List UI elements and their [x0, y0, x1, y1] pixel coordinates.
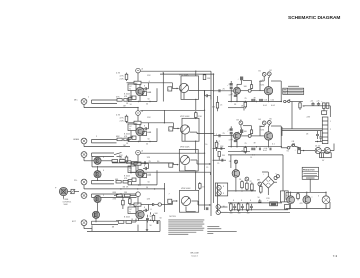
svg-text:71: 71: [129, 129, 131, 131]
node rail188 c: [154, 188, 155, 189]
wire: ch3 supply rail: [140, 152, 204, 154]
wire: rail y172 right end: [210, 172, 212, 175]
transistor TR10: [264, 87, 272, 95]
bus wire 2: [210, 71, 212, 216]
resistor R18b box: [143, 174, 147, 178]
resistor R35: [237, 202, 240, 212]
capacitor C14: [219, 133, 226, 137]
capacitor C23a electrolytic: [230, 128, 233, 131]
resistor R5b box: [143, 92, 147, 96]
resistor R42: [218, 152, 226, 157]
svg-text:50: 50: [160, 218, 162, 220]
svg-text:8: 8: [144, 126, 145, 128]
node ch1 feed: [163, 72, 164, 73]
svg-text:4.7K: 4.7K: [116, 73, 121, 75]
wire: C5 bypass riser: [156, 128, 158, 141]
svg-text:50: 50: [148, 99, 150, 101]
svg-text:C33: C33: [266, 198, 269, 200]
node p4: [242, 209, 243, 210]
wire: psu rail lower: [303, 106, 331, 117]
node b4: [268, 146, 269, 147]
wire: VR4 bottom: [186, 206, 196, 211]
resistor R30: [241, 180, 244, 189]
svg-text:8: 8: [241, 200, 242, 202]
resistor R22: [122, 199, 125, 207]
wire: switch feed: [281, 147, 287, 149]
wire: TR6 emitter: [96, 203, 98, 223]
tone pot VR5: [59, 187, 67, 195]
svg-text:0.04: 0.04: [264, 100, 268, 102]
node c26: [317, 141, 318, 142]
node p5: [251, 209, 252, 210]
transistor TR7: [136, 169, 144, 177]
resistor R27: [126, 221, 132, 224]
wire: diode links: [321, 144, 334, 151]
wire: jack3 shield drop: [92, 156, 131, 167]
wire: bridge leads: [262, 172, 277, 195]
svg-text:7-3: 7-3: [333, 254, 338, 258]
svg-text:Issue 4: Issue 4: [191, 255, 197, 257]
terminal strip box: [285, 205, 290, 210]
capacitor C25c: [259, 148, 260, 151]
terminal circle mid: [158, 203, 161, 206]
wire: ladder line 2: [213, 157, 226, 161]
wire: TR11 to TR12: [240, 135, 265, 137]
amp B rail: [228, 146, 282, 148]
node: VR2 foot: [195, 141, 196, 142]
loudspeaker LS1: [322, 196, 330, 204]
wire: ch4 in link: [132, 219, 136, 223]
svg-text:47K: 47K: [113, 199, 117, 201]
svg-text:5K: 5K: [303, 106, 306, 108]
node ch1 gnd: [137, 107, 138, 108]
svg-text:VR2 500K: VR2 500K: [180, 116, 190, 118]
transformer TF1: [280, 191, 288, 202]
svg-text:24: 24: [229, 161, 231, 163]
svg-text:B2: B2: [270, 70, 272, 72]
wire: T2 drop to TR10: [268, 76, 271, 88]
svg-text:1K: 1K: [239, 179, 242, 181]
resistor R5 box: [128, 96, 136, 100]
svg-text:470: 470: [259, 126, 262, 128]
transistor TR2: [136, 127, 144, 135]
jack5 switch contact: [114, 193, 122, 195]
wire: screened cable pair: [92, 153, 115, 156]
resistor R15: [132, 162, 138, 165]
svg-text:71: 71: [129, 212, 131, 214]
wire: trio links: [291, 192, 326, 196]
svg-text:47K: 47K: [116, 96, 120, 98]
wire: ch1 collector feed: [137, 73, 139, 81]
output socket box: [215, 183, 227, 196]
svg-text:B4: B4: [259, 119, 261, 121]
wire: R17 to TR7: [137, 165, 139, 169]
lamp LP3: [248, 134, 251, 137]
wire: R24 to TR8: [137, 206, 139, 210]
svg-text:50: 50: [150, 225, 152, 227]
svg-text:47K: 47K: [124, 136, 128, 138]
transistor TR9: [234, 87, 241, 94]
svg-text:1: 1: [88, 97, 89, 99]
svg-text:500K: 500K: [64, 204, 69, 206]
svg-text:OC81: OC81: [260, 85, 265, 87]
node: VR1 foot: [195, 99, 196, 100]
resistor R25: [152, 214, 155, 222]
svg-text:1K: 1K: [126, 187, 129, 189]
node c28: [303, 150, 304, 151]
svg-text:1M: 1M: [123, 105, 126, 107]
potentiometer VR4: [181, 196, 190, 205]
node bus1 ch3rail: [204, 153, 205, 154]
transistor TR12: [264, 132, 272, 140]
wire: ch2 riser x164: [163, 110, 165, 123]
node b1: [231, 146, 232, 147]
wire: VR2 wiper out: [190, 132, 214, 134]
wire: ch1 emitter rail: [128, 98, 157, 102]
svg-text:39: 39: [254, 98, 256, 100]
wire: R2 to TR1 base: [126, 99, 131, 101]
node a1: [231, 101, 232, 102]
capacitor C19: [316, 101, 320, 106]
wire: supply rail ch2: [140, 109, 204, 111]
type box TR8: [128, 207, 136, 214]
svg-text:OC81: OC81: [260, 130, 265, 132]
wire: T5 drop to TR12: [268, 124, 271, 132]
capacitor C25b: [254, 148, 255, 151]
svg-text:8: 8: [233, 200, 234, 202]
capacitor C23b electrolytic: [227, 130, 232, 134]
resistor R2: [123, 99, 129, 108]
type box TR2: [128, 124, 136, 131]
wire: VR2 bottom drop: [184, 134, 186, 141]
node b3: [256, 146, 257, 147]
svg-text:25: 25: [217, 144, 219, 146]
svg-text:12K: 12K: [147, 117, 151, 119]
wire: J3 to TR3: [84, 157, 94, 160]
wire: psu rail right: [290, 101, 303, 103]
output line lower: [286, 204, 330, 209]
svg-text:220: 220: [229, 84, 232, 86]
terminal P1: [245, 177, 249, 181]
resistor R31: [246, 182, 249, 191]
svg-text:25: 25: [223, 133, 226, 135]
svg-text:4.7K: 4.7K: [120, 159, 125, 161]
lamp LP2: [248, 89, 251, 92]
svg-text:8: 8: [223, 186, 225, 188]
svg-text:15: 15: [250, 157, 252, 159]
svg-text:P: P: [55, 188, 57, 190]
link block: [206, 207, 209, 210]
transistor TR3: [94, 157, 101, 164]
svg-text:S1: S1: [287, 151, 289, 153]
battery feed terminal A4: [136, 192, 141, 197]
node o2: [306, 192, 307, 193]
svg-text:4.7K: 4.7K: [120, 118, 125, 120]
wire: ch4 emitter rail: [116, 219, 160, 232]
svg-text:47K: 47K: [124, 96, 128, 98]
wire: VR4 wiper out: [191, 201, 211, 205]
svg-text:8: 8: [144, 207, 145, 209]
transistor TR14: [287, 196, 295, 204]
svg-text:4.7: 4.7: [217, 141, 220, 143]
resistor R38: [215, 141, 224, 149]
svg-text:8: 8: [144, 86, 145, 88]
jack3 switch contact: [114, 152, 122, 156]
wire: ch3 base link: [125, 161, 131, 174]
svg-text:9: 9: [223, 193, 225, 195]
wire: ch1 emitter: [139, 96, 141, 102]
wire: jack2 ground return: [84, 144, 130, 147]
wire: VR1 top to rail: [195, 71, 197, 76]
attenuator box ch2: [169, 127, 173, 131]
notes text block right: [207, 227, 236, 234]
switch S1: [286, 144, 295, 153]
svg-text:OC: OC: [129, 86, 132, 88]
node VR1 out bus: [204, 90, 205, 91]
svg-text:2: 2: [330, 129, 331, 131]
svg-text:1K: 1K: [202, 186, 205, 188]
capacitor C34: [221, 147, 222, 150]
terminal T5: [267, 118, 271, 124]
capacitor C10: [146, 215, 149, 223]
svg-text:+: +: [267, 200, 269, 202]
wire: rail y172: [130, 171, 211, 173]
wire: rail y188 ch3: [116, 188, 164, 190]
svg-text:+: +: [238, 78, 240, 80]
capacitor C19d: [261, 99, 262, 102]
wire: bias vertical B: [243, 126, 260, 136]
resistor R45: [115, 179, 121, 183]
wire: TR11 emitter: [236, 139, 238, 147]
capacitor C16 electrolytic: [230, 83, 233, 86]
resistor R17 boxed: [134, 162, 141, 166]
terminal T1: [259, 71, 267, 77]
svg-text:24V: 24V: [307, 117, 311, 119]
svg-text:+: +: [263, 174, 265, 176]
amp A rail: [228, 101, 282, 103]
resistor R40: [250, 130, 252, 135]
svg-text:50: 50: [146, 144, 148, 146]
wire: C16 leads: [230, 81, 232, 102]
node ch2 feed: [164, 122, 165, 123]
terminal P0: [234, 160, 237, 163]
wire: ch4 bias line: [130, 204, 147, 206]
wire: C15 lead: [237, 80, 242, 87]
svg-text:6: 6: [149, 81, 150, 83]
svg-text:47: 47: [245, 180, 247, 182]
node rail y172: [195, 172, 196, 173]
resistor R34: [230, 202, 233, 212]
trimmer RV1: [70, 189, 75, 193]
transistor TR4: [94, 171, 101, 178]
diode D2: [324, 148, 330, 154]
resistor R21: [124, 192, 130, 197]
svg-text:39: 39: [254, 143, 256, 145]
wire: ch4 collector feed: [137, 197, 139, 205]
capacitor C32: [258, 199, 261, 203]
battery feed terminal A1: [136, 68, 141, 73]
screen box VR1: [181, 76, 199, 100]
output socket SK4: [216, 210, 220, 214]
switch S2 in rail: [284, 99, 291, 103]
svg-text:0.1: 0.1: [272, 144, 275, 146]
wire: ch4 out riser: [150, 212, 152, 221]
wire: ch1 out drop: [172, 83, 178, 89]
wire: TR9 emitter: [236, 94, 238, 102]
attenuator box ch1: [168, 87, 172, 91]
capacitor C19a: [252, 99, 253, 102]
svg-text:+: +: [327, 110, 329, 112]
wire: down arrow: [146, 216, 152, 232]
capacitor C27: [319, 131, 322, 142]
wire: ch4 base link: [130, 195, 136, 197]
svg-text:0.01: 0.01: [148, 132, 152, 134]
resistor R43: [299, 102, 306, 111]
resistor R12: [195, 111, 203, 119]
svg-text:2.2K: 2.2K: [120, 120, 125, 122]
svg-text:7: 7: [169, 194, 170, 196]
wire: jack1 ground return: [84, 105, 138, 108]
wire: psu mid rail: [228, 190, 256, 192]
wire: ladder line 1: [213, 148, 225, 150]
svg-text:+25: +25: [316, 101, 319, 103]
resistor R19: [199, 182, 206, 190]
amp B lower rail: [228, 150, 250, 152]
wire: T3 drop: [240, 125, 243, 130]
wire: C22 lead: [237, 133, 242, 135]
svg-text:47K: 47K: [119, 155, 123, 157]
svg-text:3: 3: [318, 196, 319, 198]
wire: screened cable pair: [92, 140, 117, 143]
resistor R44: [212, 96, 223, 111]
wire: sockets link: [220, 207, 227, 212]
wire: VR2 top connect: [195, 117, 197, 120]
wire: R38 stubs: [216, 140, 218, 151]
capacitor C28 electrolytic: [295, 148, 301, 154]
relay box: [322, 108, 327, 114]
capacitor C22 electrolytic: [238, 129, 244, 133]
potentiometer VR3: [180, 155, 189, 164]
node o3: [325, 192, 326, 193]
svg-text:MIC: MIC: [74, 99, 78, 101]
svg-text:B5: B5: [270, 118, 272, 120]
wire: jack4 ground return: [84, 185, 116, 189]
wire: note box drop: [309, 179, 311, 192]
capacitor C25a: [252, 148, 253, 151]
node ch3 pot in: [177, 164, 178, 165]
node: VR2 out bus: [213, 133, 214, 134]
node ch3 rail a: [139, 184, 140, 185]
wire: ch3 out drop: [173, 163, 178, 165]
resistor R6: [203, 75, 211, 80]
wire: bus to amp A: [214, 90, 234, 92]
wire: ch3 rail: [112, 162, 172, 164]
svg-text:50: 50: [258, 197, 260, 199]
terminal P2: [258, 182, 262, 186]
resistor R3: [120, 73, 128, 81]
ground rail bottom: [87, 225, 160, 232]
wire: bus2 to VR3 link node: [209, 163, 210, 164]
svg-text:25: 25: [223, 88, 226, 90]
wire: rail y74 to bus: [160, 73, 214, 75]
resistor R20: [117, 194, 123, 197]
svg-text:100: 100: [238, 212, 241, 214]
svg-text:VR4 500K: VR4 500K: [181, 188, 191, 190]
svg-text:GRAM: GRAM: [73, 138, 79, 141]
wire: R4 to TR1: [139, 84, 141, 87]
capacitor C4: [143, 123, 148, 131]
capacitor C1: [143, 83, 148, 91]
node ch1 e2: [149, 101, 150, 102]
svg-text:1K: 1K: [126, 103, 129, 105]
svg-text:50: 50: [148, 182, 150, 184]
input jack J1: [81, 99, 87, 105]
wire: psu rail2: [228, 202, 282, 204]
wire: T1 drop: [260, 76, 264, 81]
capacitor C6: [144, 161, 151, 165]
wire: ch3 collector line right: [150, 162, 173, 164]
wire: lower join: [329, 202, 331, 209]
resistor R46: [123, 180, 129, 188]
screen box VR2: [182, 118, 199, 141]
wire: screened cable pair: [92, 194, 137, 197]
svg-text:1M: 1M: [112, 226, 115, 228]
svg-text:B3: B3: [237, 119, 239, 121]
output line upper: [286, 192, 326, 200]
terminal T2: [267, 70, 271, 76]
wire: screened cable pair: [92, 100, 118, 103]
svg-text:100: 100: [247, 212, 250, 214]
svg-text:0.04: 0.04: [271, 105, 275, 107]
resistor R29: [241, 101, 247, 109]
svg-text:A: A: [142, 68, 144, 71]
wire: ch2 base drop: [130, 131, 132, 140]
psu bottom rail: [231, 209, 288, 211]
terminal P3: [274, 176, 277, 179]
node VR1 top: [195, 71, 196, 72]
transistor TR8: [136, 210, 144, 218]
node rail188 b: [137, 188, 138, 189]
svg-text:68K: 68K: [116, 136, 120, 138]
node rail188 a: [120, 188, 121, 189]
resistor R36: [246, 202, 249, 212]
wire: TR13 leads: [235, 160, 237, 191]
node ch3 e1: [138, 184, 139, 185]
svg-text:25: 25: [220, 104, 222, 106]
svg-text:12K: 12K: [147, 199, 151, 201]
capacitor C19c: [259, 99, 260, 102]
wire: j4 link: [128, 182, 131, 185]
amp B boundary rail: [228, 155, 283, 191]
potentiometer VR2: [180, 125, 189, 134]
node bus3 top: [213, 73, 214, 74]
resistor R4 boxed: [134, 81, 141, 85]
svg-text:2: 2: [96, 136, 97, 138]
transistor TR5: [94, 195, 101, 202]
wire: ch2 collector line: [127, 122, 174, 124]
svg-text:25: 25: [217, 163, 219, 165]
resistor R11b box: [143, 132, 147, 136]
resistor R37: [297, 192, 300, 200]
svg-text:100: 100: [230, 212, 233, 214]
resistor R7: [116, 136, 122, 141]
svg-text:1: 1: [330, 121, 331, 123]
long bus lower: [282, 130, 322, 132]
svg-text:10K: 10K: [244, 131, 248, 133]
resistor R23: [129, 197, 132, 205]
capacitor C12: [153, 203, 154, 206]
svg-text:1M: 1M: [124, 192, 127, 194]
